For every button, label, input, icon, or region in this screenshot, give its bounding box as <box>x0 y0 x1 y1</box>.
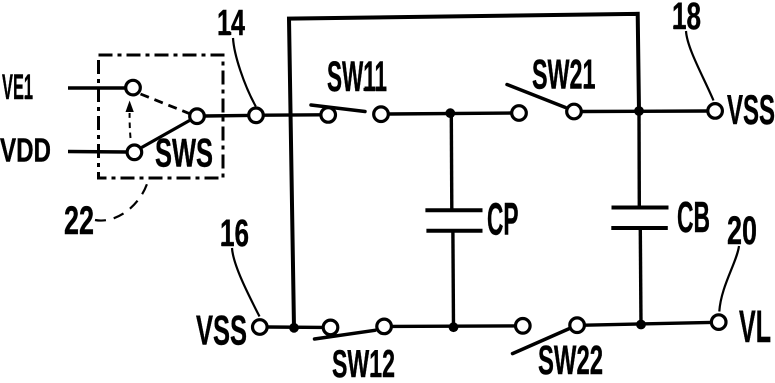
svg-text:VSS: VSS <box>727 86 775 133</box>
svg-text:18: 18 <box>672 0 701 38</box>
svg-text:VL: VL <box>739 301 771 352</box>
svg-text:VE1: VE1 <box>2 68 33 107</box>
svg-text:16: 16 <box>220 213 249 255</box>
svg-text:VDD: VDD <box>0 132 51 169</box>
svg-text:CP: CP <box>487 194 519 245</box>
svg-text:SW11: SW11 <box>327 53 387 101</box>
svg-text:SW21: SW21 <box>532 51 596 98</box>
svg-text:SWS: SWS <box>155 132 213 176</box>
svg-text:SW12: SW12 <box>332 343 395 378</box>
svg-text:22: 22 <box>64 199 94 243</box>
svg-text:CB: CB <box>677 193 710 242</box>
svg-text:VSS: VSS <box>196 307 247 354</box>
svg-text:20: 20 <box>727 209 757 253</box>
svg-text:SW22: SW22 <box>538 337 603 378</box>
svg-text:14: 14 <box>217 2 245 43</box>
